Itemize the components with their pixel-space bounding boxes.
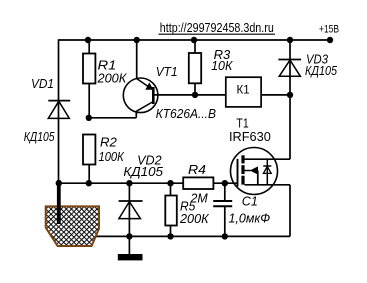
svg-text:+15В: +15В	[319, 24, 339, 36]
resistor R2	[83, 135, 95, 184]
resistor R1	[83, 40, 95, 118]
emitter lead from top rail	[136, 40, 138, 79]
node R5 top / R4 left	[167, 180, 173, 186]
wire top rail	[59, 39, 331, 41]
node C1 top / R4 right	[222, 180, 228, 186]
node R3 top	[191, 37, 197, 43]
diode VD3	[278, 40, 301, 95]
relay K1 box	[226, 77, 261, 107]
underline of url	[159, 33, 276, 35]
node R3 bottom / base	[192, 92, 198, 98]
svg-text:R2: R2	[100, 135, 118, 150]
svg-text:С1: С1	[242, 194, 258, 209]
node sensor / VD1 bottom	[56, 180, 62, 186]
node K1 right / VD3 bottom	[287, 92, 293, 98]
svg-text:VT1: VT1	[156, 64, 178, 79]
svg-text:10К: 10К	[211, 58, 233, 73]
node R2 bottom	[86, 180, 92, 186]
svg-text:100К: 100К	[99, 149, 125, 164]
node R1 top	[85, 37, 91, 43]
channel segment middle	[241, 165, 244, 174]
svg-text:200К: 200К	[97, 71, 128, 86]
node C1 bottom	[222, 233, 228, 239]
terminal +15V	[327, 37, 333, 43]
resistor R5	[165, 183, 177, 236]
body lead with arrow	[245, 170, 251, 172]
body diode	[266, 159, 268, 185]
svg-text:КД105: КД105	[123, 164, 163, 179]
svg-text:VD1: VD1	[31, 76, 54, 91]
drain line	[245, 158, 291, 160]
node collector / R1-R2	[86, 115, 92, 121]
sensor plate (touch sensor)	[46, 206, 99, 246]
mosfet T1	[231, 148, 291, 195]
channel segment bottom	[241, 176, 244, 185]
node VD3 top	[287, 37, 293, 43]
wire K1 to VD3 node	[261, 94, 290, 96]
wire R4 to gate	[213, 182, 237, 184]
base bar	[152, 87, 155, 104]
svg-text:1,0мкФ: 1,0мкФ	[229, 211, 271, 226]
wire drain vertical from VD3/K1 node	[289, 95, 291, 159]
node VD2 top	[126, 180, 132, 186]
wire left vertical (VD1 branch)	[58, 39, 60, 183]
svg-text:КД105: КД105	[305, 63, 338, 78]
source line	[245, 184, 291, 186]
gate electrode	[237, 159, 239, 187]
transistor VT1	[123, 40, 158, 118]
collector diagonal	[136, 102, 153, 112]
diode VD2	[119, 183, 143, 236]
wire gate rail y=183 from sensor node to R4	[59, 182, 184, 184]
diode VD1	[48, 101, 70, 119]
svg-text:R4: R4	[188, 162, 206, 177]
svg-text:200К: 200К	[179, 211, 210, 226]
wire bottom rail	[95, 235, 290, 237]
ground symbol	[118, 236, 143, 260]
node R5 bottom	[167, 233, 173, 239]
sensor probe electrode	[57, 180, 61, 224]
svg-text:КД105: КД105	[24, 129, 55, 144]
node VD2 bottom / ground	[126, 233, 132, 239]
resistor R3	[189, 40, 201, 95]
emitter diagonal with arrow	[137, 79, 153, 90]
wire base to K1	[153, 94, 226, 96]
resistor R4	[183, 177, 213, 189]
svg-text:К1: К1	[237, 83, 250, 97]
svg-text:КТ626А...В: КТ626А...В	[156, 106, 217, 121]
node VT1 emitter top	[134, 37, 140, 43]
wire collector to R1/R2 node	[89, 117, 137, 119]
svg-text:http://299792458.3dn.ru: http://299792458.3dn.ru	[160, 20, 274, 35]
channel segment top	[241, 155, 244, 163]
capacitor C1	[213, 183, 232, 236]
svg-text:IRF630: IRF630	[229, 129, 271, 144]
wire source vertical to bottom rail	[289, 185, 291, 237]
